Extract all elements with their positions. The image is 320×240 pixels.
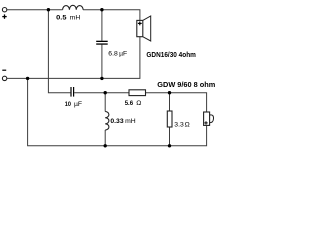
terminal IN+ bbox=[2, 8, 6, 12]
junction node (bottom rail / R2) bbox=[168, 144, 171, 147]
junction node B (negative rail / bottom rail branch) bbox=[26, 77, 29, 80]
resistor R1 5.6 ohm (series, midrange feed) bbox=[129, 90, 146, 96]
speaker LS1 tweeter GDN16/30 bbox=[137, 16, 151, 41]
junction node (top rail / C1) bbox=[100, 8, 103, 11]
svg-text:10: 10 bbox=[65, 101, 71, 108]
svg-text:GDN16/30 4ohm: GDN16/30 4ohm bbox=[146, 50, 196, 59]
junction node (midrange feed / R2) bbox=[168, 91, 171, 94]
svg-text:mH: mH bbox=[70, 14, 81, 21]
wire capacitor C1 branch lower bbox=[101, 45, 103, 79]
value label 5.6 ohm bbox=[125, 100, 142, 107]
speaker LS2 woofer GDW 9/60 bbox=[204, 112, 214, 125]
terminal IN- bbox=[2, 76, 6, 80]
svg-text:0.5: 0.5 bbox=[56, 14, 67, 21]
value label 10 uF bbox=[65, 101, 82, 108]
svg-text:6.8: 6.8 bbox=[108, 50, 118, 57]
svg-text:3.3: 3.3 bbox=[174, 122, 184, 129]
capacitor C1 6.8 uF (shunt across tweeter) bbox=[96, 41, 108, 45]
svg-text:Ω: Ω bbox=[136, 100, 141, 107]
wire tweeter return down to negative rail and left to IN- bbox=[7, 37, 140, 79]
value label 3.3 ohm bbox=[174, 122, 189, 129]
svg-text:µF: µF bbox=[119, 50, 127, 57]
value label 6.8 uF bbox=[108, 50, 127, 57]
junction node (bottom rail / L2) bbox=[104, 144, 107, 147]
wire woofer return along bottom rail up to negative rail node B bbox=[28, 78, 207, 145]
svg-text:mH: mH bbox=[125, 118, 136, 125]
wire resistor R2 branch upper bbox=[169, 93, 171, 111]
wire midrange feed from capacitor C2 to resistor R1 bbox=[74, 92, 129, 94]
wire top rail from L1 to tweeter, corner down at x=140 bbox=[83, 10, 140, 21]
wire resistor R2 branch lower bbox=[169, 127, 171, 146]
junction node A (top rail / midrange branch) bbox=[47, 8, 50, 11]
value label 0.33 mH bbox=[110, 118, 135, 125]
svg-text:GDW 9/60 8 ohm: GDW 9/60 8 ohm bbox=[157, 80, 215, 89]
wire branch from top-rail node A down (crosses negative rail) to midrange feed bbox=[48, 10, 70, 93]
svg-text:Ω: Ω bbox=[185, 122, 190, 129]
label - (negative input polarity) bbox=[2, 69, 6, 71]
inductor L2 0.33 mH (shunt) bbox=[105, 112, 109, 131]
wire top rail from IN+ to inductor L1 bbox=[7, 9, 63, 11]
junction node (midrange feed / L2) bbox=[104, 91, 107, 94]
inductor L1 0.5 mH (series, top rail) bbox=[63, 5, 84, 9]
value label 0.5 mH bbox=[56, 14, 80, 21]
junction node (negative rail / C1) bbox=[100, 77, 103, 80]
svg-text:5.6: 5.6 bbox=[125, 100, 134, 107]
wire midrange feed from R1 to woofer, corner down at x=206.6 bbox=[146, 93, 207, 112]
svg-text:µF: µF bbox=[74, 101, 82, 108]
label + (positive input polarity) bbox=[2, 14, 6, 18]
resistor R2 3.3 ohm (shunt across woofer) bbox=[167, 111, 172, 127]
svg-text:0.33: 0.33 bbox=[110, 118, 123, 125]
wire inductor L2 branch lower bbox=[104, 130, 106, 146]
wire capacitor C1 branch upper bbox=[101, 10, 103, 41]
capacitor C2 10 uF (series, midrange feed) bbox=[70, 87, 74, 97]
wire inductor L2 branch upper bbox=[104, 93, 106, 112]
